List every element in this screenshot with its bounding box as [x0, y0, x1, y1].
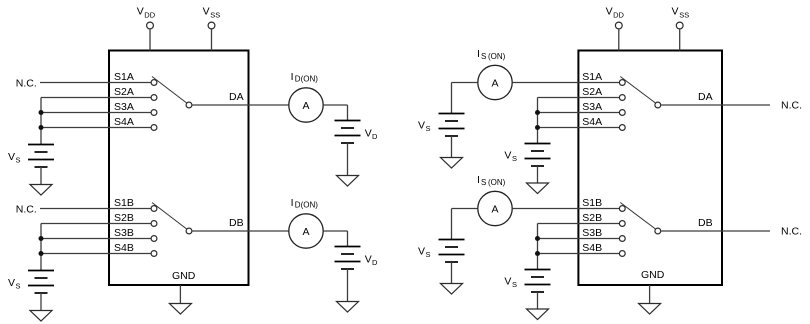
svg-text:DB: DB [229, 217, 244, 229]
wire VDD stub right [618, 29, 620, 51]
ground VS1 A right [441, 158, 463, 169]
svg-text:N.C.: N.C. [781, 226, 802, 238]
battery VS1 A right [439, 114, 465, 137]
pin S1B right [619, 206, 625, 212]
svg-text:S3A: S3A [114, 101, 134, 113]
svg-text:DD: DD [613, 11, 624, 20]
wire S1A left [40, 82, 151, 84]
wire VS1 A right to ground [451, 136, 453, 158]
svg-text:N.C.: N.C. [781, 100, 802, 112]
label IS(ON) B [477, 174, 506, 187]
wire S1B left [40, 208, 151, 210]
wire VS1 B right vertical [451, 209, 453, 240]
pin S3A right [619, 110, 625, 116]
ground GND right [639, 304, 661, 315]
wire S4B right [538, 253, 620, 255]
svg-text:DA: DA [698, 91, 713, 103]
svg-text:S4B: S4B [114, 242, 134, 254]
pin S2B right [619, 221, 625, 227]
ammeter A B right [478, 191, 512, 225]
battery VS2 A right [525, 144, 551, 167]
pin S1A right [619, 80, 625, 86]
svg-text:S: S [512, 280, 517, 289]
wire ammeter B right to S1 [512, 208, 619, 210]
wire VS B left to ground [40, 293, 42, 311]
switch arm A left [152, 77, 187, 104]
wire GND stub right [649, 285, 651, 304]
battery VD B [335, 247, 361, 270]
wire S2B left [41, 223, 151, 225]
pin S3A left [151, 110, 157, 116]
wire DB left [192, 230, 289, 232]
svg-text:DD: DD [144, 11, 155, 20]
ground VS2 A right [527, 183, 549, 194]
svg-text:S2A: S2A [582, 86, 602, 98]
wire VS1 B right top [452, 208, 478, 210]
label VSS right [672, 6, 690, 20]
wire VSS stub left [211, 29, 213, 51]
junction dot S3B left [39, 236, 44, 241]
wire VD B down [347, 231, 349, 247]
svg-text:I: I [477, 48, 480, 60]
wire DA right [661, 104, 770, 106]
wire VD A down [347, 105, 349, 121]
wire VD A to ground [347, 143, 349, 176]
label VS A left [8, 151, 21, 165]
svg-text:S (ON): S (ON) [481, 178, 506, 187]
svg-text:V: V [418, 246, 425, 258]
svg-text:S3B: S3B [114, 227, 134, 239]
junction dot S3A right [535, 110, 540, 115]
svg-text:S: S [16, 156, 21, 165]
svg-text:V: V [672, 6, 679, 18]
wire VS1 A right top [452, 82, 478, 84]
svg-text:A: A [491, 203, 498, 215]
ground VS B left [30, 311, 52, 322]
wire S2A left vertical [40, 98, 42, 145]
wire VS2 A right to ground [537, 166, 539, 183]
svg-text:D(ON): D(ON) [295, 75, 318, 84]
pin S4B right [619, 251, 625, 257]
wire GND stub left [179, 285, 181, 304]
switch common pole A right [655, 102, 661, 108]
label IS(ON) A [477, 48, 506, 61]
svg-text:D(ON): D(ON) [295, 201, 318, 210]
junction dot S4B right [535, 251, 540, 256]
wire ammeter B left to VD [323, 230, 347, 232]
pin S1A left [151, 80, 157, 86]
wire ammeter A right to S1 [512, 82, 619, 84]
ground VS1 B right [441, 284, 463, 295]
svg-text:N.C.: N.C. [16, 78, 37, 90]
label VS2 B right [504, 276, 517, 290]
label VD A [365, 128, 378, 142]
svg-text:S2A: S2A [114, 86, 134, 98]
svg-text:V: V [418, 120, 425, 132]
ground VS A left [30, 185, 52, 196]
svg-text:DA: DA [229, 91, 244, 103]
junction dot S4B left [39, 251, 44, 256]
svg-text:V: V [137, 6, 144, 18]
svg-text:S1B: S1B [582, 197, 602, 209]
wire S2B right vertical [537, 224, 539, 270]
switch arm B right [620, 203, 655, 230]
svg-text:S: S [426, 124, 431, 133]
label VS2 A right [504, 150, 517, 164]
svg-text:S: S [16, 282, 21, 291]
pin VDD left [147, 22, 154, 29]
battery VS2 B right [525, 270, 551, 293]
switch common pole A left [186, 102, 192, 108]
svg-text:S4A: S4A [114, 116, 134, 128]
wire DA left [192, 104, 289, 106]
label ID(ON) B [291, 197, 319, 210]
junction dot S4A right [535, 125, 540, 130]
wire S4A left [41, 127, 151, 129]
DUT box U2 [578, 51, 722, 286]
svg-text:A: A [302, 100, 309, 112]
ammeter A B left [289, 214, 323, 248]
svg-text:S2B: S2B [114, 212, 134, 224]
svg-text:V: V [8, 151, 15, 163]
wire S4A right [538, 127, 620, 129]
svg-text:I: I [291, 71, 294, 83]
svg-text:I: I [291, 197, 294, 209]
pin S4B left [151, 251, 157, 257]
svg-text:GND: GND [641, 269, 665, 281]
label VDD right [606, 6, 625, 20]
pin S3B right [619, 236, 625, 242]
wire S2B right [538, 223, 620, 225]
label VDD left [137, 6, 156, 20]
battery VS A left [28, 145, 54, 168]
battery VS1 B right [439, 240, 465, 263]
wire S3B left [41, 238, 151, 240]
ground GND left [169, 304, 191, 315]
pin VSS left [208, 22, 215, 29]
ground VD A [337, 176, 359, 187]
svg-text:SS: SS [679, 11, 689, 20]
label VSS left [203, 6, 221, 20]
label VS1 B right [418, 246, 431, 260]
svg-text:S1A: S1A [114, 71, 134, 83]
wire S3A left [41, 112, 151, 114]
svg-text:S: S [512, 154, 517, 163]
ammeter A A right [478, 65, 512, 99]
svg-text:V: V [606, 6, 613, 18]
label VS B left [8, 277, 21, 291]
svg-text:I: I [477, 174, 480, 186]
wire S3A right [538, 112, 620, 114]
wire VS1 A right vertical [451, 83, 453, 114]
ground VS2 B right [527, 309, 549, 320]
wire VS1 B right to ground [451, 262, 453, 284]
wire VS2 B right to ground [537, 292, 539, 309]
svg-text:V: V [365, 128, 372, 140]
switch arm A right [620, 77, 655, 104]
wire VS A left to ground [40, 167, 42, 185]
wire S4B left [41, 253, 151, 255]
pin S1B left [151, 206, 157, 212]
label VS1 A right [418, 120, 431, 134]
ammeter A A left [289, 88, 323, 122]
junction dot S3A left [39, 110, 44, 115]
svg-text:S1A: S1A [582, 71, 602, 83]
svg-text:S2B: S2B [582, 212, 602, 224]
svg-text:DB: DB [698, 217, 713, 229]
junction dot S3B right [535, 236, 540, 241]
wire VDD stub left [149, 29, 151, 51]
svg-text:V: V [203, 6, 210, 18]
svg-text:V: V [365, 254, 372, 266]
wire S2A left [41, 97, 151, 99]
wire VSS stub right [679, 29, 681, 51]
svg-text:S4A: S4A [582, 116, 602, 128]
svg-text:SS: SS [210, 11, 220, 20]
wire S3B right [538, 238, 620, 240]
svg-text:S3B: S3B [582, 227, 602, 239]
battery VD A [335, 121, 361, 144]
ground VD B [337, 302, 359, 313]
switch common pole B left [186, 228, 192, 234]
junction dot S4A left [39, 125, 44, 130]
wire S2A right [538, 97, 620, 99]
svg-text:S3A: S3A [582, 101, 602, 113]
svg-text:D: D [372, 132, 378, 141]
wire S2B left vertical [40, 224, 42, 271]
pin S2A left [151, 95, 157, 101]
pin S4A left [151, 125, 157, 131]
svg-text:S4B: S4B [582, 242, 602, 254]
pin S3B left [151, 236, 157, 242]
svg-text:N.C.: N.C. [16, 204, 37, 216]
battery VS B left [28, 271, 54, 294]
svg-text:S1B: S1B [114, 197, 134, 209]
label VD B [365, 254, 378, 268]
svg-text:S (ON): S (ON) [481, 52, 506, 61]
svg-text:A: A [491, 77, 498, 89]
switch arm B left [152, 203, 187, 230]
svg-text:V: V [8, 277, 15, 289]
wire VD B to ground [347, 269, 349, 302]
pin VSS right [676, 22, 683, 29]
svg-text:GND: GND [172, 270, 196, 282]
switch common pole B right [655, 228, 661, 234]
svg-text:S: S [426, 250, 431, 259]
DUT box U1 [109, 51, 249, 286]
pin VDD right [615, 22, 622, 29]
wire DB right [661, 230, 770, 232]
wire S2A right vertical [537, 98, 539, 144]
pin S4A right [619, 125, 625, 131]
svg-text:V: V [504, 276, 511, 288]
svg-text:V: V [504, 150, 511, 162]
svg-text:A: A [302, 226, 309, 238]
wire ammeter A left to VD [323, 104, 347, 106]
pin S2B left [151, 221, 157, 227]
svg-text:D: D [372, 258, 378, 267]
label ID(ON) A [291, 71, 319, 84]
pin S2A right [619, 95, 625, 101]
